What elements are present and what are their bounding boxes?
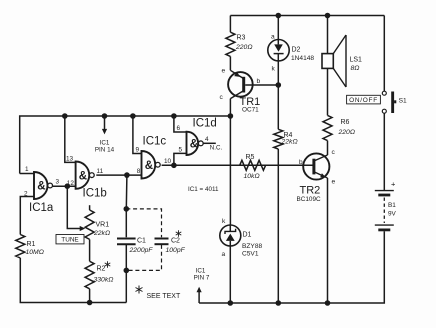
wire top rail to S1 [383,16,385,92]
wire top rail to D2 [277,16,279,40]
battery B1 [375,190,394,192]
wire IC1a pin2 to R1 [20,197,34,235]
wire dashed C2 bottom link [126,245,161,271]
loudspeaker LS1 [322,54,333,69]
svg-text:b: b [257,78,261,85]
node C1 bottom junction [124,268,130,274]
node C1 top junction [124,206,130,212]
node bus pin14-arrow junction [102,113,108,119]
svg-text:9: 9 [136,146,140,153]
transistor TR2 [303,153,329,179]
node top rail LS1 junction [325,13,331,19]
capacitor C1 [117,238,136,240]
wire TR1 collector down [229,99,231,225]
svg-text:1N4148: 1N4148 [291,55,314,62]
svg-text:R6: R6 [341,119,350,126]
svg-text:22kΩ: 22kΩ [93,230,110,237]
svg-text:IC1: IC1 [196,268,206,275]
diode D1 zener [220,225,241,246]
wire IC1b out down to C1 [125,175,128,237]
resistor R5 10k [240,160,266,170]
node bus pin13 junction [62,113,68,119]
diode D2 [268,40,289,61]
svg-text:PIN 14: PIN 14 [95,146,115,153]
svg-text:a: a [271,33,275,40]
svg-text:TR2: TR2 [300,185,321,197]
svg-text:ON/OFF: ON/OFF [349,97,378,104]
label ON/OFF box [347,95,381,104]
svg-text:IC1b: IC1b [83,188,107,200]
resistor R4 [274,129,283,149]
svg-text:&: & [190,139,198,151]
wire IC supply bus (pin14) [20,116,231,174]
NAND gate IC1a [34,172,48,199]
svg-text:2: 2 [24,190,28,197]
node pin12/wiper junction [65,183,71,189]
node bus pin9 junction [130,113,136,119]
wire IC1d pin5 branch [174,153,187,165]
potentiometer VR1 [89,205,91,210]
wire C1 bottom to rail [125,244,127,270]
svg-text:10MΩ: 10MΩ [26,249,44,256]
svg-text:100pF: 100pF [166,247,186,254]
node bus TR1-collector junction [228,113,234,119]
wire R6 to TR2 collector [327,141,329,155]
svg-text:IC1d: IC1d [193,118,217,130]
svg-text:C2: C2 [171,238,180,245]
wire S1 to battery [383,113,385,190]
wire IC1d pin6 branch [174,116,187,132]
wire R3 to TR1 emitter [229,56,231,70]
svg-text:220Ω: 220Ω [235,44,253,51]
label SEE TEXT [138,286,140,294]
svg-text:6: 6 [177,125,181,132]
node IC1b output junction [124,172,130,178]
svg-text:S1: S1 [399,97,407,104]
svg-text:R3: R3 [237,35,246,42]
svg-text:3: 3 [56,179,60,186]
svg-text:BZY88: BZY88 [242,243,262,250]
svg-text:OC71: OC71 [242,106,259,113]
svg-text:1: 1 [25,166,29,173]
wire LS1 to R6 [327,68,329,115]
node D1 rail junction [228,300,234,306]
wire dashed C2 top link [126,209,161,237]
svg-text:8: 8 [137,168,141,175]
wire VR1 to R2 [89,239,91,261]
wiper arrowhead [80,226,86,231]
svg-text:PIN 7: PIN 7 [194,275,210,282]
wire top rail to LS1 [327,16,329,54]
wire IC1c out signal line [162,164,313,166]
resistor R6 [323,115,332,140]
svg-text:5: 5 [179,146,183,153]
wire D2 to TR1 base node [277,54,279,130]
wire IC1c pin9 branch [133,116,142,154]
label TUNE box [56,235,84,244]
wire R4 down to 0V rail [277,149,279,303]
wire top +9V rail [230,15,384,17]
wire R2 to left rail [89,289,91,303]
wire top rail to R3 [229,16,231,33]
wire IC1b out to IC1c pin8 [96,174,141,176]
svg-text:e: e [222,68,226,75]
node TR2 emitter rail junction [325,300,331,306]
node IC1c output / pin5 junction [171,163,177,169]
svg-text:C5V1: C5V1 [242,250,259,257]
resistor R3 [226,32,235,56]
svg-text:&: & [79,170,87,182]
svg-text:SEE TEXT: SEE TEXT [147,293,181,300]
svg-text:D1: D1 [243,232,252,239]
arrow IC1 pin7 [198,291,200,303]
svg-text:10: 10 [164,158,172,165]
wire TR1 base [245,84,278,86]
capacitor C2 [155,238,169,240]
svg-text:D2: D2 [292,47,301,54]
svg-text:&: & [37,181,45,193]
svg-text:&: & [145,160,153,172]
svg-text:a: a [222,251,226,258]
resistor R2 [85,261,94,289]
node top rail D2 junction [276,13,282,19]
resistor R1 [16,235,25,259]
wire D1 to 0V rail [229,246,231,303]
wire IC1d out N.C. [203,142,216,144]
svg-text:10kΩ: 10kΩ [244,173,260,180]
wire TR2 emitter to 0V rail [327,178,329,303]
svg-text:8Ω: 8Ω [351,65,360,72]
NAND gate IC1c [142,151,156,179]
switch S1 contacts [382,91,386,95]
svg-text:N.C.: N.C. [210,145,223,152]
node TR1 base / D2 / R4 junction [276,82,282,88]
node R4 rail junction [276,300,282,306]
svg-text:b: b [299,159,303,166]
svg-text:R1: R1 [27,241,36,248]
wire wiper branch [67,186,81,228]
wire IC1a out to IC1b pin12 [53,185,76,187]
NAND gate IC1d [187,132,199,155]
svg-text:e: e [332,179,336,186]
svg-text:C1: C1 [137,238,146,245]
node bus pin6 junction [171,113,177,119]
svg-text:VR1: VR1 [96,222,110,229]
svg-text:330kΩ: 330kΩ [94,276,114,283]
svg-text:220Ω: 220Ω [338,129,356,136]
node R2 rail junction [87,300,93,306]
wire battery to 0V rail [199,231,384,303]
svg-text:11: 11 [97,168,104,175]
svg-text:9V: 9V [388,210,397,217]
svg-text:22kΩ: 22kΩ [281,139,298,146]
svg-text:BC109C: BC109C [297,196,322,203]
svg-text:IC1a: IC1a [29,202,54,214]
svg-text:TUNE: TUNE [61,237,78,244]
svg-text:R2: R2 [97,265,106,272]
arrow IC1 pin14 [104,116,106,130]
svg-text:IC1c: IC1c [143,136,167,148]
wire IC1b pin13 branch [65,116,76,162]
svg-text:2200pF: 2200pF [129,247,154,254]
svg-text:IC1 = 4011: IC1 = 4011 [188,186,219,193]
svg-text:IC1: IC1 [100,139,110,146]
svg-text:4: 4 [205,136,209,143]
svg-text:13: 13 [66,155,74,162]
NAND gate IC1b [76,162,90,189]
svg-text:B1: B1 [388,202,396,209]
wire R1 to left rail [20,258,126,303]
svg-text:R5: R5 [246,154,255,161]
wire IC1a pin1 stub [20,173,34,175]
svg-text:12: 12 [67,180,75,187]
transistor TR1 [228,72,253,97]
svg-text:+: + [391,179,396,188]
svg-text:LS1: LS1 [350,57,363,64]
